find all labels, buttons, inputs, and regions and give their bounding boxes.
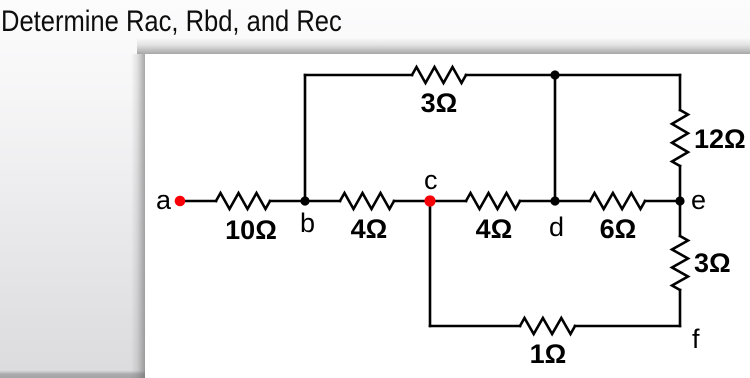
node c red terminal [424, 195, 435, 206]
wire 12ohm to e [679, 166, 682, 236]
svg-text:4Ω: 4Ω [351, 214, 388, 244]
svg-text:e: e [691, 185, 706, 215]
resistor 6ohm (d-e) [590, 193, 645, 209]
wire c down to bottom rail [429, 201, 432, 326]
wire a to 10ohm [183, 200, 216, 203]
resistor 12ohm (top right vertical) [672, 110, 688, 166]
svg-text:c: c [424, 165, 438, 195]
wire bottom rail right segment [575, 325, 680, 328]
wire b up to top rail [304, 75, 307, 201]
node e junction dot [675, 196, 684, 205]
node b junction dot [300, 196, 309, 205]
wire 3ohm to f corner [679, 290, 682, 326]
wire 4ohm to c and c to 4ohm [394, 200, 466, 203]
wire d up to top rail [554, 75, 557, 201]
svg-text:6Ω: 6Ω [600, 214, 637, 244]
left shadow of slide [131, 54, 145, 378]
top rail junction dot above d [550, 70, 559, 79]
wire bottom rail left segment [430, 325, 520, 328]
resistor 4ohm (c-d) [466, 193, 520, 209]
svg-text:4Ω: 4Ω [476, 214, 513, 244]
svg-text:1Ω: 1Ω [530, 339, 567, 369]
node a red terminal [175, 196, 186, 207]
svg-text:f: f [692, 324, 700, 354]
top shadow of slide [137, 38, 750, 54]
wire top rail right segment [466, 74, 680, 77]
svg-text:b: b [300, 208, 315, 238]
resistor 10ohm (a-b) [216, 193, 270, 209]
svg-text:3Ω: 3Ω [694, 248, 731, 278]
wire 6ohm to e [645, 200, 680, 203]
wire top-right corner down to 12ohm [679, 75, 682, 110]
resistor 4ohm (b-c) [340, 193, 394, 209]
wire 10ohm to b [270, 200, 340, 203]
svg-text:d: d [549, 212, 564, 242]
svg-text:12Ω: 12Ω [694, 124, 746, 154]
resistor 3ohm (top) [412, 67, 466, 83]
title text [1, 5, 342, 39]
node d junction dot [550, 196, 559, 205]
resistor 3ohm (right vertical, e-f) [672, 236, 688, 290]
svg-text:3Ω: 3Ω [421, 88, 458, 118]
svg-text:a: a [156, 185, 172, 215]
resistor 1ohm (bottom) [520, 318, 575, 334]
svg-text:10Ω: 10Ω [225, 215, 277, 245]
slide background [145, 54, 750, 378]
wire 4ohm to d and d to 6ohm [520, 200, 590, 203]
wire top rail left segment [305, 74, 412, 77]
